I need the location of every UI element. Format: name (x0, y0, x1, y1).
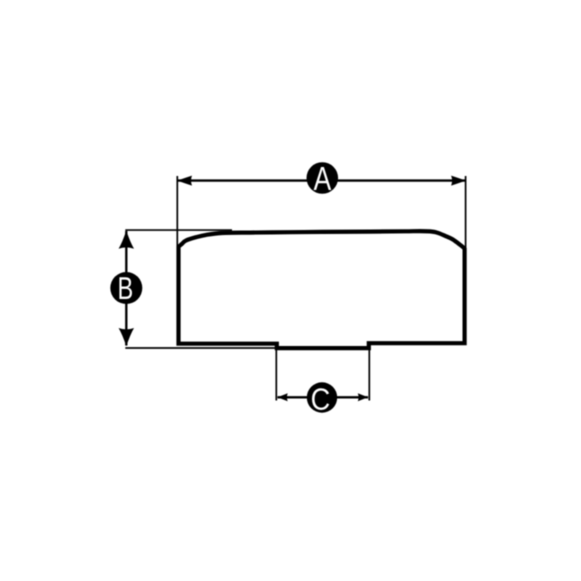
dimension C arrowhead left (277, 393, 287, 401)
dimension B arrowhead top (119, 231, 134, 249)
balloon A circle (307, 162, 339, 194)
balloon A label (314, 167, 332, 190)
dimension A arrowhead left (177, 176, 192, 186)
balloon C label (312, 388, 329, 410)
dimension C extension line right (368, 348, 370, 401)
dimension C arrowhead right (358, 393, 368, 401)
dimension A line (177, 179, 465, 181)
dimension A arrowhead right (451, 176, 466, 186)
dimension B extension line bottom (125, 347, 277, 349)
balloon B label (119, 277, 132, 299)
dimension A extension line left (176, 176, 178, 247)
balloon B circle (110, 272, 142, 304)
dimension C line (278, 396, 369, 398)
body outline (knob cross-section) (179, 231, 465, 348)
dimension A extension line right (465, 176, 467, 248)
balloon C circle (307, 382, 337, 412)
dimension B line (125, 231, 127, 346)
dimension B extension line top (125, 229, 232, 231)
dimension C extension line left (275, 348, 277, 401)
dimension B arrowhead bottom (119, 328, 134, 346)
